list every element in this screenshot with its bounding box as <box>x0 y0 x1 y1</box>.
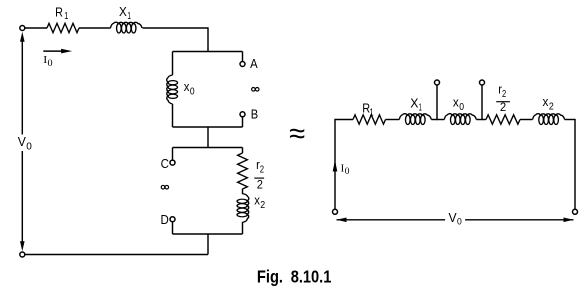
svg-text:0: 0 <box>48 58 54 68</box>
svg-text:2: 2 <box>500 102 506 114</box>
svg-text:2: 2 <box>257 178 263 192</box>
svg-text:8.10.1: 8.10.1 <box>291 266 332 286</box>
svg-text:2: 2 <box>260 200 265 211</box>
svg-text:V: V <box>449 210 457 225</box>
svg-text:2: 2 <box>549 102 554 113</box>
svg-text:0: 0 <box>190 87 195 98</box>
svg-text:C: C <box>161 156 169 171</box>
svg-text:0: 0 <box>345 166 350 176</box>
svg-text:1: 1 <box>370 108 374 119</box>
svg-text:B: B <box>251 106 258 121</box>
svg-text:0: 0 <box>26 140 32 152</box>
svg-text:2: 2 <box>260 165 265 176</box>
svg-text:2: 2 <box>502 89 507 100</box>
svg-text:0: 0 <box>457 216 462 226</box>
svg-text:≈: ≈ <box>289 118 305 150</box>
svg-text:x: x <box>543 94 549 109</box>
svg-text:1: 1 <box>64 11 68 22</box>
svg-text:0: 0 <box>459 102 464 113</box>
svg-text:X: X <box>119 4 127 19</box>
svg-text:1: 1 <box>419 102 423 113</box>
svg-text:R: R <box>55 4 63 19</box>
svg-text:1: 1 <box>127 11 131 22</box>
svg-text:Fig.: Fig. <box>257 266 283 286</box>
svg-text:V: V <box>18 134 26 149</box>
svg-text:D: D <box>161 212 169 227</box>
svg-text:X: X <box>410 96 419 111</box>
svg-text:A: A <box>250 56 258 71</box>
